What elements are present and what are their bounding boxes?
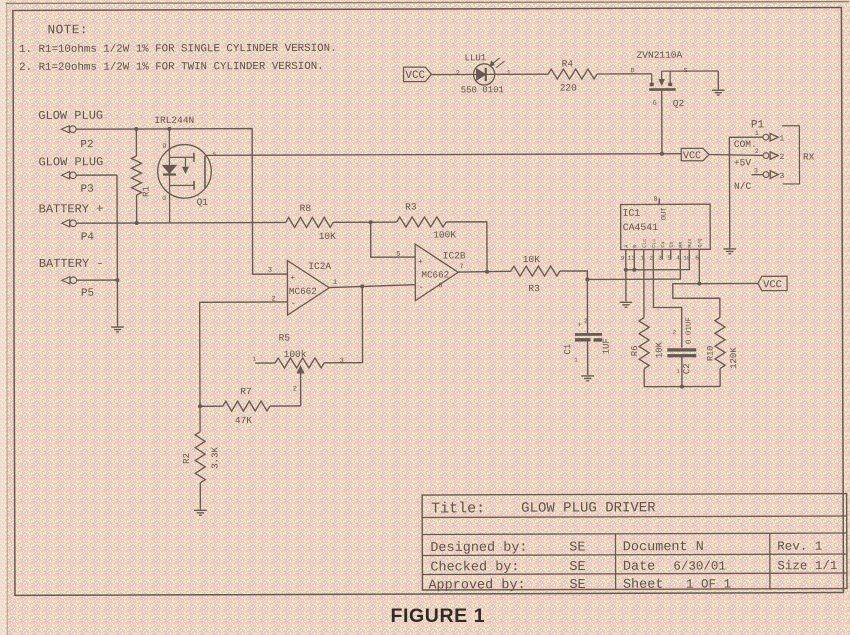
pin number 1 (755, 130, 759, 137)
label Q1 refdes (197, 197, 209, 208)
label IC2B pin5 (396, 251, 400, 259)
wire R9 to C1 node (560, 271, 588, 280)
label IC2A pin1 (333, 279, 337, 287)
pin number 3 (754, 167, 758, 174)
op-amp IC2A (287, 260, 331, 315)
junction IC2B out / feedback (485, 270, 489, 274)
wire P3 (76, 174, 117, 176)
wire RC bottom bus (644, 385, 720, 387)
transistor Q2 ZVN2110A (631, 67, 719, 107)
connector P3 label (38, 155, 103, 169)
IC1 pin2 wire (632, 250, 636, 272)
IC1 pin number labels (621, 255, 700, 262)
wire VCC to LED (431, 73, 473, 75)
page top edge artifact (6, 2, 849, 4)
resistor R8 (286, 203, 337, 242)
capacitor C1 (563, 279, 612, 375)
wire LED to R4 (495, 73, 548, 75)
label IC2B pin6 (438, 282, 442, 290)
wire pin4 to C2 (653, 249, 682, 347)
wire Q1 source rail (205, 154, 681, 156)
ground R2 (194, 510, 207, 515)
connector P3 (61, 172, 93, 196)
label Q1 part number (154, 115, 194, 126)
title label (431, 500, 485, 517)
wire IC2B pin5 (371, 222, 416, 257)
page left edge artifact (0, 0, 7, 635)
transistor Q1 IRL244N (158, 129, 217, 223)
label LLU1 (465, 53, 487, 63)
wire R4 to Q2 drain (597, 73, 652, 75)
LED LLU1 (473, 58, 504, 85)
checked by row (430, 559, 837, 575)
wire R5 to IC2A out (361, 286, 363, 362)
connector P1 pin 2 (763, 152, 784, 162)
note heading (47, 22, 87, 37)
title value (521, 500, 656, 516)
power VCC mid (681, 148, 709, 162)
wire Q2 source to ground (717, 71, 719, 89)
power VCC top (404, 67, 432, 82)
junction Q1 gate top (167, 127, 171, 131)
junction C1 node (585, 277, 589, 281)
IC U1 CA4541 box (621, 204, 711, 249)
capacitor C2 (667, 317, 696, 387)
IC1 pin name labels (624, 239, 704, 248)
label N/C (734, 181, 751, 192)
junction R7/R2 (198, 404, 202, 408)
connector P1 pin 3 (763, 171, 784, 181)
wire R8 to R3 (333, 221, 396, 223)
ground Q2 source (712, 90, 725, 95)
IC1 pin6 stub (670, 249, 672, 259)
label +5V (734, 157, 751, 168)
resistor R1 (131, 129, 151, 223)
label COM (734, 139, 757, 150)
wire VCC to P1 pin2 (709, 154, 763, 155)
title block table (422, 494, 847, 590)
label IC2A pin3 (268, 267, 272, 275)
svg-text:FIGURE 1: FIGURE 1 (391, 605, 486, 627)
pin number 2 (755, 148, 759, 155)
ground C1 (581, 376, 594, 381)
label IC2A pin2 (271, 296, 275, 304)
designed by row (430, 540, 822, 556)
connector P2 (61, 126, 93, 152)
label CA4541 (623, 222, 658, 233)
wire P5 (77, 279, 118, 281)
label RX (803, 152, 815, 163)
connector P2 label (38, 109, 103, 123)
wire IC2B output (458, 270, 511, 273)
resistor R4 (548, 58, 597, 93)
junction Q2 gate / rail (660, 152, 664, 156)
wire pin9 node (697, 249, 701, 285)
wire IC2A output (329, 285, 415, 288)
note line 1 (19, 43, 337, 56)
resistor R9 10K (511, 254, 560, 294)
ground battery- (111, 327, 124, 332)
resistor R10 (706, 317, 740, 386)
IC1 pin8 stub (654, 196, 660, 205)
power VCC right (758, 276, 787, 291)
wire P1 pin3 stub (752, 174, 764, 176)
junction P5/ground rail (115, 278, 119, 282)
bracket RX (782, 126, 799, 184)
junction R8/R3/pin5 (369, 220, 373, 224)
IC1 pin1 wire to ground (624, 250, 628, 302)
wire P4 battery+ rail (76, 221, 285, 224)
IC1 pin5 stub (661, 249, 663, 259)
connector P1 pin 1 (763, 133, 784, 143)
junction R1 bottom (135, 221, 139, 225)
label LED pin 2 (456, 70, 460, 78)
connector P4 (62, 220, 95, 244)
wire P1 COM vertical (729, 137, 763, 248)
label OUT (661, 208, 669, 221)
label IC2B pin7 (459, 263, 463, 271)
label LED pin 1 (507, 70, 511, 78)
connector P5 label (39, 257, 104, 271)
junction IC2A out / R5 (360, 284, 364, 288)
label Q2 part number (637, 50, 683, 61)
wire pin9 to R10 (673, 284, 720, 318)
wire IC2A pin2 (200, 302, 288, 406)
label P1 (751, 119, 765, 131)
wire pin9 to VCC (699, 282, 757, 284)
resistor R6 (630, 318, 665, 387)
pot R5 wiper arrow (293, 366, 304, 406)
wire P2 to IC2A pin3 (76, 128, 287, 274)
resistor R7 (200, 386, 301, 426)
wire R3 feedback (446, 222, 487, 272)
ground P1 COM (723, 249, 736, 254)
wire Q2 gate (661, 91, 663, 154)
connector P4 label (39, 202, 104, 216)
ground IC1 (620, 302, 633, 307)
connector P5 (62, 277, 94, 300)
label LLU1 value (461, 85, 504, 95)
wire pin7 to C1 node (587, 249, 680, 279)
note line 2 (19, 61, 324, 74)
resistor R5 100k pot (253, 332, 363, 368)
junction C2 bottom (680, 385, 684, 389)
wire pins1-2-8 bus (626, 249, 690, 269)
approved by row (428, 577, 731, 593)
op-amp IC2B (415, 244, 466, 301)
label Q2 refdes (673, 98, 685, 109)
figure caption (391, 605, 486, 627)
label IC1 (623, 208, 641, 219)
wire P3/P5 vertical to ground (116, 175, 119, 327)
junction R1 top (134, 127, 138, 131)
resistor R2 (182, 406, 221, 510)
wire pin3 to R6 (643, 250, 645, 318)
resistor R3 100K (397, 201, 457, 240)
